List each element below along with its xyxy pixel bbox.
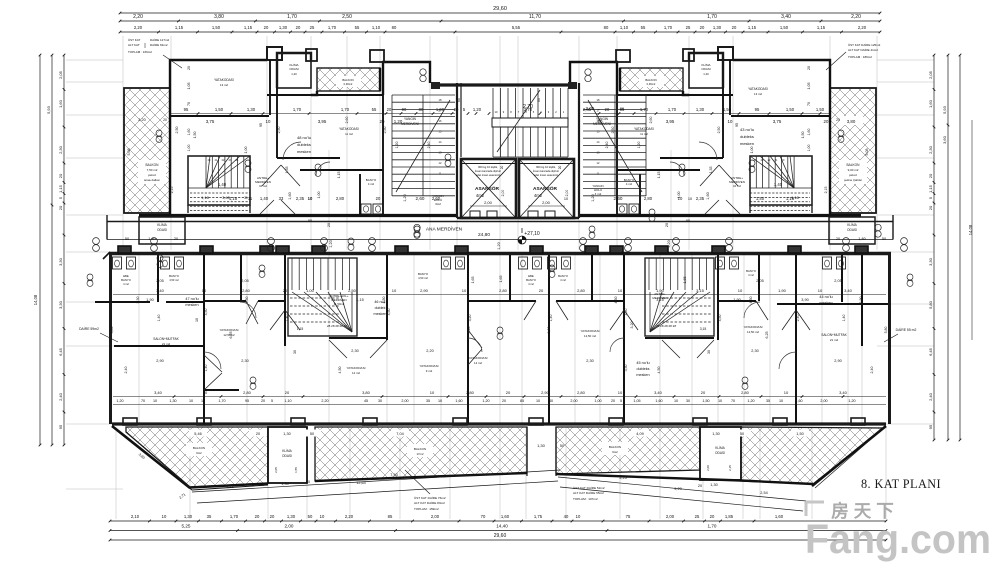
upper block wc fixtures right [617,204,627,214]
hatched balcony bottom-center-right [556,427,700,474]
door swing arcs [204,142,796,369]
svg-text:28 28 28 28 28: 28 28 28 28 28 [656,324,676,328]
svg-text:3,75: 3,75 [773,119,782,124]
svg-text:1,30: 1,30 [712,432,719,436]
svg-text:3,30: 3,30 [58,257,63,266]
svg-text:1,70: 1,70 [664,25,673,30]
svg-text:1,50: 1,50 [801,132,805,139]
sub-corridor klima room right [829,217,875,244]
svg-text:1,75: 1,75 [534,514,543,519]
svg-text:20: 20 [539,288,544,293]
svg-text:900 kg 10 kişilik,: 900 kg 10 kişilik, [478,165,498,169]
svg-text:3,30: 3,30 [58,300,63,309]
klima odasi room upper-left [277,53,311,88]
svg-text:10: 10 [202,288,207,293]
fan stair unit45 [645,258,714,336]
svg-text:5,46: 5,46 [194,432,201,436]
svg-text:4m2: 4m2 [534,193,543,198]
svg-text:ALT KAT DAİRE 83m2: ALT KAT DAİRE 83m2 [414,500,445,505]
svg-text:12 m2: 12 m2 [352,371,360,375]
svg-text:10: 10 [576,514,581,519]
svg-text:11 m2: 11 m2 [640,132,648,136]
svg-text:2,20: 2,20 [858,25,867,30]
svg-text:55: 55 [372,107,377,112]
watermark partial glyph [806,502,824,516]
svg-text:6,25: 6,25 [765,332,769,339]
svg-text:20: 20 [283,288,288,293]
svg-text:3,20: 3,20 [547,327,551,334]
svg-text:1,20: 1,20 [473,107,482,112]
svg-text:4,50 m2: 4,50 m2 [169,278,179,282]
svg-text:SALON+MUTFAK: SALON+MUTFAK [153,337,179,341]
svg-text:2,15: 2,15 [170,187,174,194]
svg-text:YATAKODASI: YATAKODASI [339,127,359,131]
svg-text:20: 20 [163,118,167,122]
hatched balcony upper-right [830,88,876,213]
svg-text:4,50: 4,50 [749,297,753,304]
svg-text:4 m2: 4 m2 [528,282,534,286]
svg-text:2,00: 2,00 [565,190,569,197]
svg-text:4m2: 4m2 [476,193,485,198]
svg-text:1,50: 1,50 [786,107,795,112]
svg-text:9,00 m2: 9,00 m2 [848,168,859,172]
svg-text:20: 20 [500,166,504,170]
svg-text:14,08: 14,08 [33,294,38,305]
svg-text:TOPLAM : 186m2: TOPLAM : 186m2 [848,55,872,59]
svg-text:10: 10 [266,119,271,124]
svg-text:80: 80 [604,25,609,30]
svg-text:1,20: 1,20 [848,399,855,403]
svg-text:45: 45 [364,399,368,403]
svg-text:9,29: 9,29 [674,487,681,491]
svg-text:20: 20 [928,173,933,178]
svg-text:ODASI: ODASI [289,67,299,71]
svg-text:1,10: 1,10 [372,25,381,30]
svg-text:1,40: 1,40 [774,182,783,187]
svg-text:2,30: 2,30 [751,349,758,353]
svg-text:2,05: 2,05 [756,279,763,283]
svg-text:4,50: 4,50 [338,367,342,374]
svg-text:4 m2: 4 m2 [560,278,566,282]
svg-text:4,09: 4,09 [636,432,643,436]
grid bubble tags top of core [420,69,426,75]
svg-text:11,70: 11,70 [529,14,541,20]
hatched balcony bottom-right [741,427,884,484]
svg-text:1,15: 1,15 [748,25,757,30]
svg-text:DAİRE 55 m2: DAİRE 55 m2 [896,327,917,332]
svg-text:1,40: 1,40 [218,182,227,187]
svg-text:1,50: 1,50 [723,107,732,112]
hatched balcony strip top-left [317,68,380,91]
hatched balcony bottom-center-left [315,427,527,481]
svg-text:DAİRE 59m2: DAİRE 59m2 [79,326,99,331]
svg-text:çatısız: çatısız [148,173,157,177]
dimension row A bottom [110,520,886,522]
detail tag bubbles scattered [156,130,162,136]
svg-text:9 m2: 9 m2 [426,369,433,373]
grid bubble tags corridor row [93,238,100,245]
svg-text:1,15: 1,15 [657,172,661,179]
svg-text:1,90: 1,90 [146,298,153,302]
svg-text:50: 50 [882,237,886,241]
svg-text:4 m2: 4 m2 [748,273,754,277]
fire stair left of core [392,95,455,196]
svg-text:1,15: 1,15 [244,25,253,30]
svg-text:10: 10 [818,288,823,293]
svg-text:6,25: 6,25 [229,332,233,339]
svg-text:YATAKODASI: YATAKODASI [748,87,768,91]
svg-text:2,80: 2,80 [577,288,586,293]
svg-text:BALKON: BALKON [342,78,353,82]
svg-text:95: 95 [259,123,263,127]
svg-text:1,30: 1,30 [184,514,193,519]
chimney block top-right A [718,47,733,60]
door V swings lower block [204,301,810,390]
svg-text:2,90: 2,90 [156,359,163,363]
svg-text:0,90m2: 0,90m2 [344,82,353,86]
svg-text:7,04: 7,04 [396,432,403,436]
svg-text:20: 20 [502,399,506,403]
svg-text:2,60: 2,60 [614,196,623,201]
svg-text:1,18: 1,18 [201,196,208,200]
svg-text:2,00: 2,00 [484,200,493,205]
svg-text:4,50: 4,50 [382,297,386,304]
svg-text:1,40: 1,40 [549,315,553,322]
svg-text:teras+balkon: teras+balkon [144,178,161,182]
svg-text:20: 20 [836,237,840,241]
svg-text:30: 30 [293,350,297,354]
svg-text:1,60: 1,60 [501,514,510,519]
right dimension chain middle [947,55,949,440]
svg-text:BALKON: BALKON [146,163,160,167]
svg-text:2,40: 2,40 [928,392,933,401]
klima odasi box bottom-left [268,427,307,483]
svg-text:dublek: dublek [375,306,386,310]
svg-text:ANA MERDİVEN: ANA MERDİVEN [426,226,463,233]
svg-text:1,20: 1,20 [395,142,399,149]
svg-text:10: 10 [392,288,397,293]
svg-text:YATAKODASI: YATAKODASI [580,329,599,333]
svg-text:35: 35 [426,399,430,403]
svg-text:YATAKODASI: YATAKODASI [214,78,234,82]
svg-text:1,20: 1,20 [482,399,489,403]
svg-text:ASANSÖR: ASANSÖR [533,185,558,192]
svg-text:10: 10 [779,399,783,403]
svg-text:1,60: 1,60 [795,399,802,403]
upper block interior walls [170,60,830,215]
svg-text:BALKON: BALKON [193,446,205,450]
svg-text:20: 20 [700,25,705,30]
svg-text:70: 70 [481,514,486,519]
svg-text:TOPLAM : 166m2: TOPLAM : 166m2 [128,50,152,54]
svg-text:2,05: 2,05 [58,70,63,79]
svg-text:1,30: 1,30 [287,514,296,519]
svg-text:2,00: 2,00 [542,200,551,205]
svg-text:3,15: 3,15 [656,298,663,302]
svg-text:1,70: 1,70 [668,107,677,112]
svg-text:3,30: 3,30 [136,297,140,304]
svg-text:20: 20 [296,25,301,30]
svg-text:2,40: 2,40 [796,315,800,322]
svg-text:1,50: 1,50 [212,25,221,30]
svg-text:1,30: 1,30 [281,482,288,486]
svg-text:4 m2: 4 m2 [595,192,602,196]
svg-text:1,20: 1,20 [637,142,641,149]
svg-text:1,65: 1,65 [471,277,475,284]
elevator shaft U2 [519,159,574,218]
svg-text:1,00: 1,00 [317,192,321,199]
bottom-left diagonal wall [112,426,190,488]
svg-text:2,50: 2,50 [717,127,721,134]
svg-text:85: 85 [520,399,524,403]
svg-text:mesken: mesken [636,373,649,377]
svg-text:ÜST KAT DAİRE 52m2: ÜST KAT DAİRE 52m2 [573,485,605,490]
svg-text:4 m2: 4 m2 [123,282,129,286]
svg-text:KLİMA: KLİMA [282,448,292,453]
svg-text:4,50: 4,50 [204,309,208,316]
svg-text:3,40: 3,40 [156,288,165,293]
svg-text:2,20: 2,20 [851,14,861,20]
svg-text:2,40: 2,40 [58,392,63,401]
central core top wall [431,83,577,86]
svg-text:3,40: 3,40 [844,288,853,293]
balcony label bottom-center-right [602,442,628,455]
svg-text:1,70: 1,70 [230,514,239,519]
svg-text:1,10: 1,10 [284,399,291,403]
svg-text:10: 10 [308,197,312,201]
lower block top wall [109,252,891,255]
svg-text:1,50: 1,50 [816,107,825,112]
svg-text:20: 20 [836,118,840,122]
svg-text:2,60: 2,60 [432,196,441,201]
svg-text:3,40: 3,40 [839,390,848,395]
svg-text:YATAKODASI: YATAKODASI [419,364,438,368]
svg-text:2,30: 2,30 [58,145,63,154]
svg-text:4,50: 4,50 [718,315,722,322]
svg-text:10: 10 [674,399,678,403]
svg-text:adet insan asansörü: adet insan asansörü [534,173,559,177]
svg-text:15: 15 [201,399,205,403]
svg-text:2,40: 2,40 [605,142,609,149]
svg-text:1,40: 1,40 [260,196,269,201]
svg-text:1,00: 1,00 [436,107,445,112]
svg-text:ASANSÖR: ASANSÖR [475,185,500,192]
svg-text:0,90m2: 0,90m2 [647,82,656,86]
level marker diamond [518,236,526,244]
svg-text:10: 10 [189,399,193,403]
svg-text:3,15: 3,15 [700,327,707,331]
svg-text:2,30: 2,30 [928,145,933,154]
svg-text:2,40: 2,40 [124,367,128,374]
svg-text:10: 10 [438,399,442,403]
svg-text:7,50 m2: 7,50 m2 [147,168,158,172]
svg-text:1,20: 1,20 [329,240,333,247]
svg-text:55: 55 [620,107,625,112]
svg-text:1,60: 1,60 [928,99,933,108]
svg-text:1,90: 1,90 [733,298,740,302]
svg-text:11 m2: 11 m2 [345,132,353,136]
svg-text:2,80: 2,80 [243,390,252,395]
upper block door swing V left [262,165,300,186]
svg-text:60: 60 [457,98,461,102]
svg-text:10: 10 [738,288,743,293]
svg-text:3,90: 3,90 [859,297,863,304]
svg-text:900 kg 10 kişilik,: 900 kg 10 kişilik, [536,165,556,169]
svg-text:2,50: 2,50 [383,127,387,134]
svg-text:10: 10 [536,399,540,403]
svg-text:5,55: 5,55 [512,25,521,30]
svg-text:12,50 m2: 12,50 m2 [747,330,759,334]
svg-text:2,20: 2,20 [321,399,328,403]
svg-text:ODASI: ODASI [282,454,292,458]
svg-text:20: 20 [732,25,737,30]
svg-text:2,20: 2,20 [345,514,354,519]
svg-text:1,90: 1,90 [778,288,787,293]
fan stair unit46 [288,258,357,336]
svg-text:6,45: 6,45 [58,347,63,356]
svg-text:YATAKODASI: YATAKODASI [743,325,762,329]
svg-text:20: 20 [380,119,385,124]
svg-text:BANYO: BANYO [169,274,180,278]
hatched balcony upper-left [124,88,170,213]
svg-text:2,40: 2,40 [427,142,431,149]
svg-text:1,20: 1,20 [403,194,407,201]
svg-text:20: 20 [264,25,269,30]
svg-text:55: 55 [641,25,646,30]
svg-text:KLİMA: KLİMA [847,222,857,227]
svg-text:2,30: 2,30 [351,349,358,353]
svg-text:BANYO: BANYO [418,272,429,276]
elevator shaft U1 [461,159,516,218]
central core side walls [456,83,458,218]
svg-text:3m2: 3m2 [435,202,441,206]
svg-text:7,93: 7,93 [390,473,397,477]
svg-text:2,54: 2,54 [760,491,767,495]
svg-text:75: 75 [626,514,631,519]
svg-text:ALT KAT: ALT KAT [128,43,140,47]
svg-text:1,15: 1,15 [356,298,363,302]
svg-text:5,80: 5,80 [884,327,888,334]
svg-text:1,70: 1,70 [640,107,649,112]
svg-text:2,00: 2,00 [570,399,577,403]
svg-text:43 no’lu: 43 no’lu [740,127,754,132]
svg-text:20: 20 [454,107,459,112]
chimney block top-right C [616,50,630,62]
svg-text:BANYO: BANYO [526,278,537,282]
svg-text:21 m2: 21 m2 [830,338,839,342]
svg-text:40: 40 [564,514,569,519]
svg-text:2,00: 2,00 [401,399,408,403]
svg-text:2,60: 2,60 [416,196,425,201]
svg-text:10: 10 [195,318,199,322]
svg-text:21 m2: 21 m2 [162,342,171,346]
svg-text:dubleks: dubleks [636,367,649,371]
klima odasi box bottom-right [700,427,741,480]
svg-text:95: 95 [308,219,312,223]
fire stair right of core [583,95,646,196]
svg-text:70: 70 [187,102,191,106]
svg-text:11,50m2: 11,50m2 [334,302,345,306]
svg-text:20: 20 [824,119,829,124]
svg-text:2,90: 2,90 [420,288,429,293]
svg-text:10: 10 [688,197,692,201]
svg-text:1,50: 1,50 [702,399,709,403]
svg-text:1,70: 1,70 [218,399,225,403]
dimension row C bottom 29,60 [110,539,886,541]
lower block bottom wall [112,422,886,425]
svg-text:3,30: 3,30 [928,257,933,266]
svg-text:mesken: mesken [185,303,198,307]
sub-corridor klima room left [139,217,185,244]
svg-text:95: 95 [755,107,760,112]
svg-text:1,60: 1,60 [288,192,292,199]
svg-text:3,40: 3,40 [781,14,791,20]
svg-text:2,35: 2,35 [296,196,305,201]
svg-text:şekine Çatlılar: şekine Çatlılar [844,178,862,182]
svg-text:5,80: 5,80 [928,300,933,309]
svg-text:2,50: 2,50 [348,288,357,293]
svg-text:2,50: 2,50 [175,127,179,134]
svg-text:1,65: 1,65 [683,277,687,284]
svg-text:2,30: 2,30 [586,359,593,363]
svg-text:14,40: 14,40 [496,524,508,529]
svg-text:2,10: 2,10 [131,514,140,519]
svg-text:2,80: 2,80 [499,288,508,293]
svg-text:4,50: 4,50 [624,309,628,316]
svg-text:5,93: 5,93 [46,105,51,114]
svg-text:30: 30 [686,399,690,403]
svg-text:80: 80 [392,25,397,30]
svg-text:KLİMA: KLİMA [715,445,725,450]
svg-text:DAİRE 127m2: DAİRE 127m2 [150,37,170,42]
svg-text:1,30: 1,30 [537,443,546,448]
svg-text:1,85: 1,85 [725,514,734,519]
svg-text:50: 50 [125,237,129,241]
svg-text:3,40: 3,40 [154,390,163,395]
svg-text:2,05: 2,05 [241,279,248,283]
dimension row 1 top [120,20,880,22]
svg-text:9m2: 9m2 [196,451,202,455]
svg-text:3,15: 3,15 [696,288,705,293]
svg-text:12,50 m2: 12,50 m2 [584,334,596,338]
corridor lines between blocks [107,221,893,223]
svg-text:10: 10 [618,390,623,395]
svg-text:5,93: 5,93 [942,105,947,114]
svg-text:12,64: 12,64 [356,481,366,485]
svg-text:80: 80 [419,107,424,112]
svg-text:4,50: 4,50 [614,297,618,304]
svg-text:1,18: 1,18 [229,196,238,201]
svg-text:mesken: mesken [819,301,832,305]
svg-text:Fang.com: Fang.com [805,516,991,562]
svg-text:2,80: 2,80 [577,390,586,395]
hatched balcony strip top-right [620,68,683,91]
upper block outer walls left [170,53,430,215]
svg-text:1,20: 1,20 [747,399,754,403]
svg-text:çatısız: çatısız [849,173,858,177]
svg-text:1,00: 1,00 [750,147,754,154]
svg-text:1,20: 1,20 [116,399,123,403]
svg-text:5,08: 5,08 [127,149,131,156]
svg-text:10: 10 [430,390,435,395]
svg-text:mesken: mesken [740,141,754,146]
svg-text:95: 95 [184,107,189,112]
bottom-right diagonal wall [812,426,886,486]
svg-text:mesken: mesken [374,312,387,316]
svg-text:95: 95 [58,424,63,429]
svg-text:ÜST KAT DAİRE 76m2: ÜST KAT DAİRE 76m2 [414,495,446,500]
svg-text:1,60: 1,60 [187,129,191,136]
